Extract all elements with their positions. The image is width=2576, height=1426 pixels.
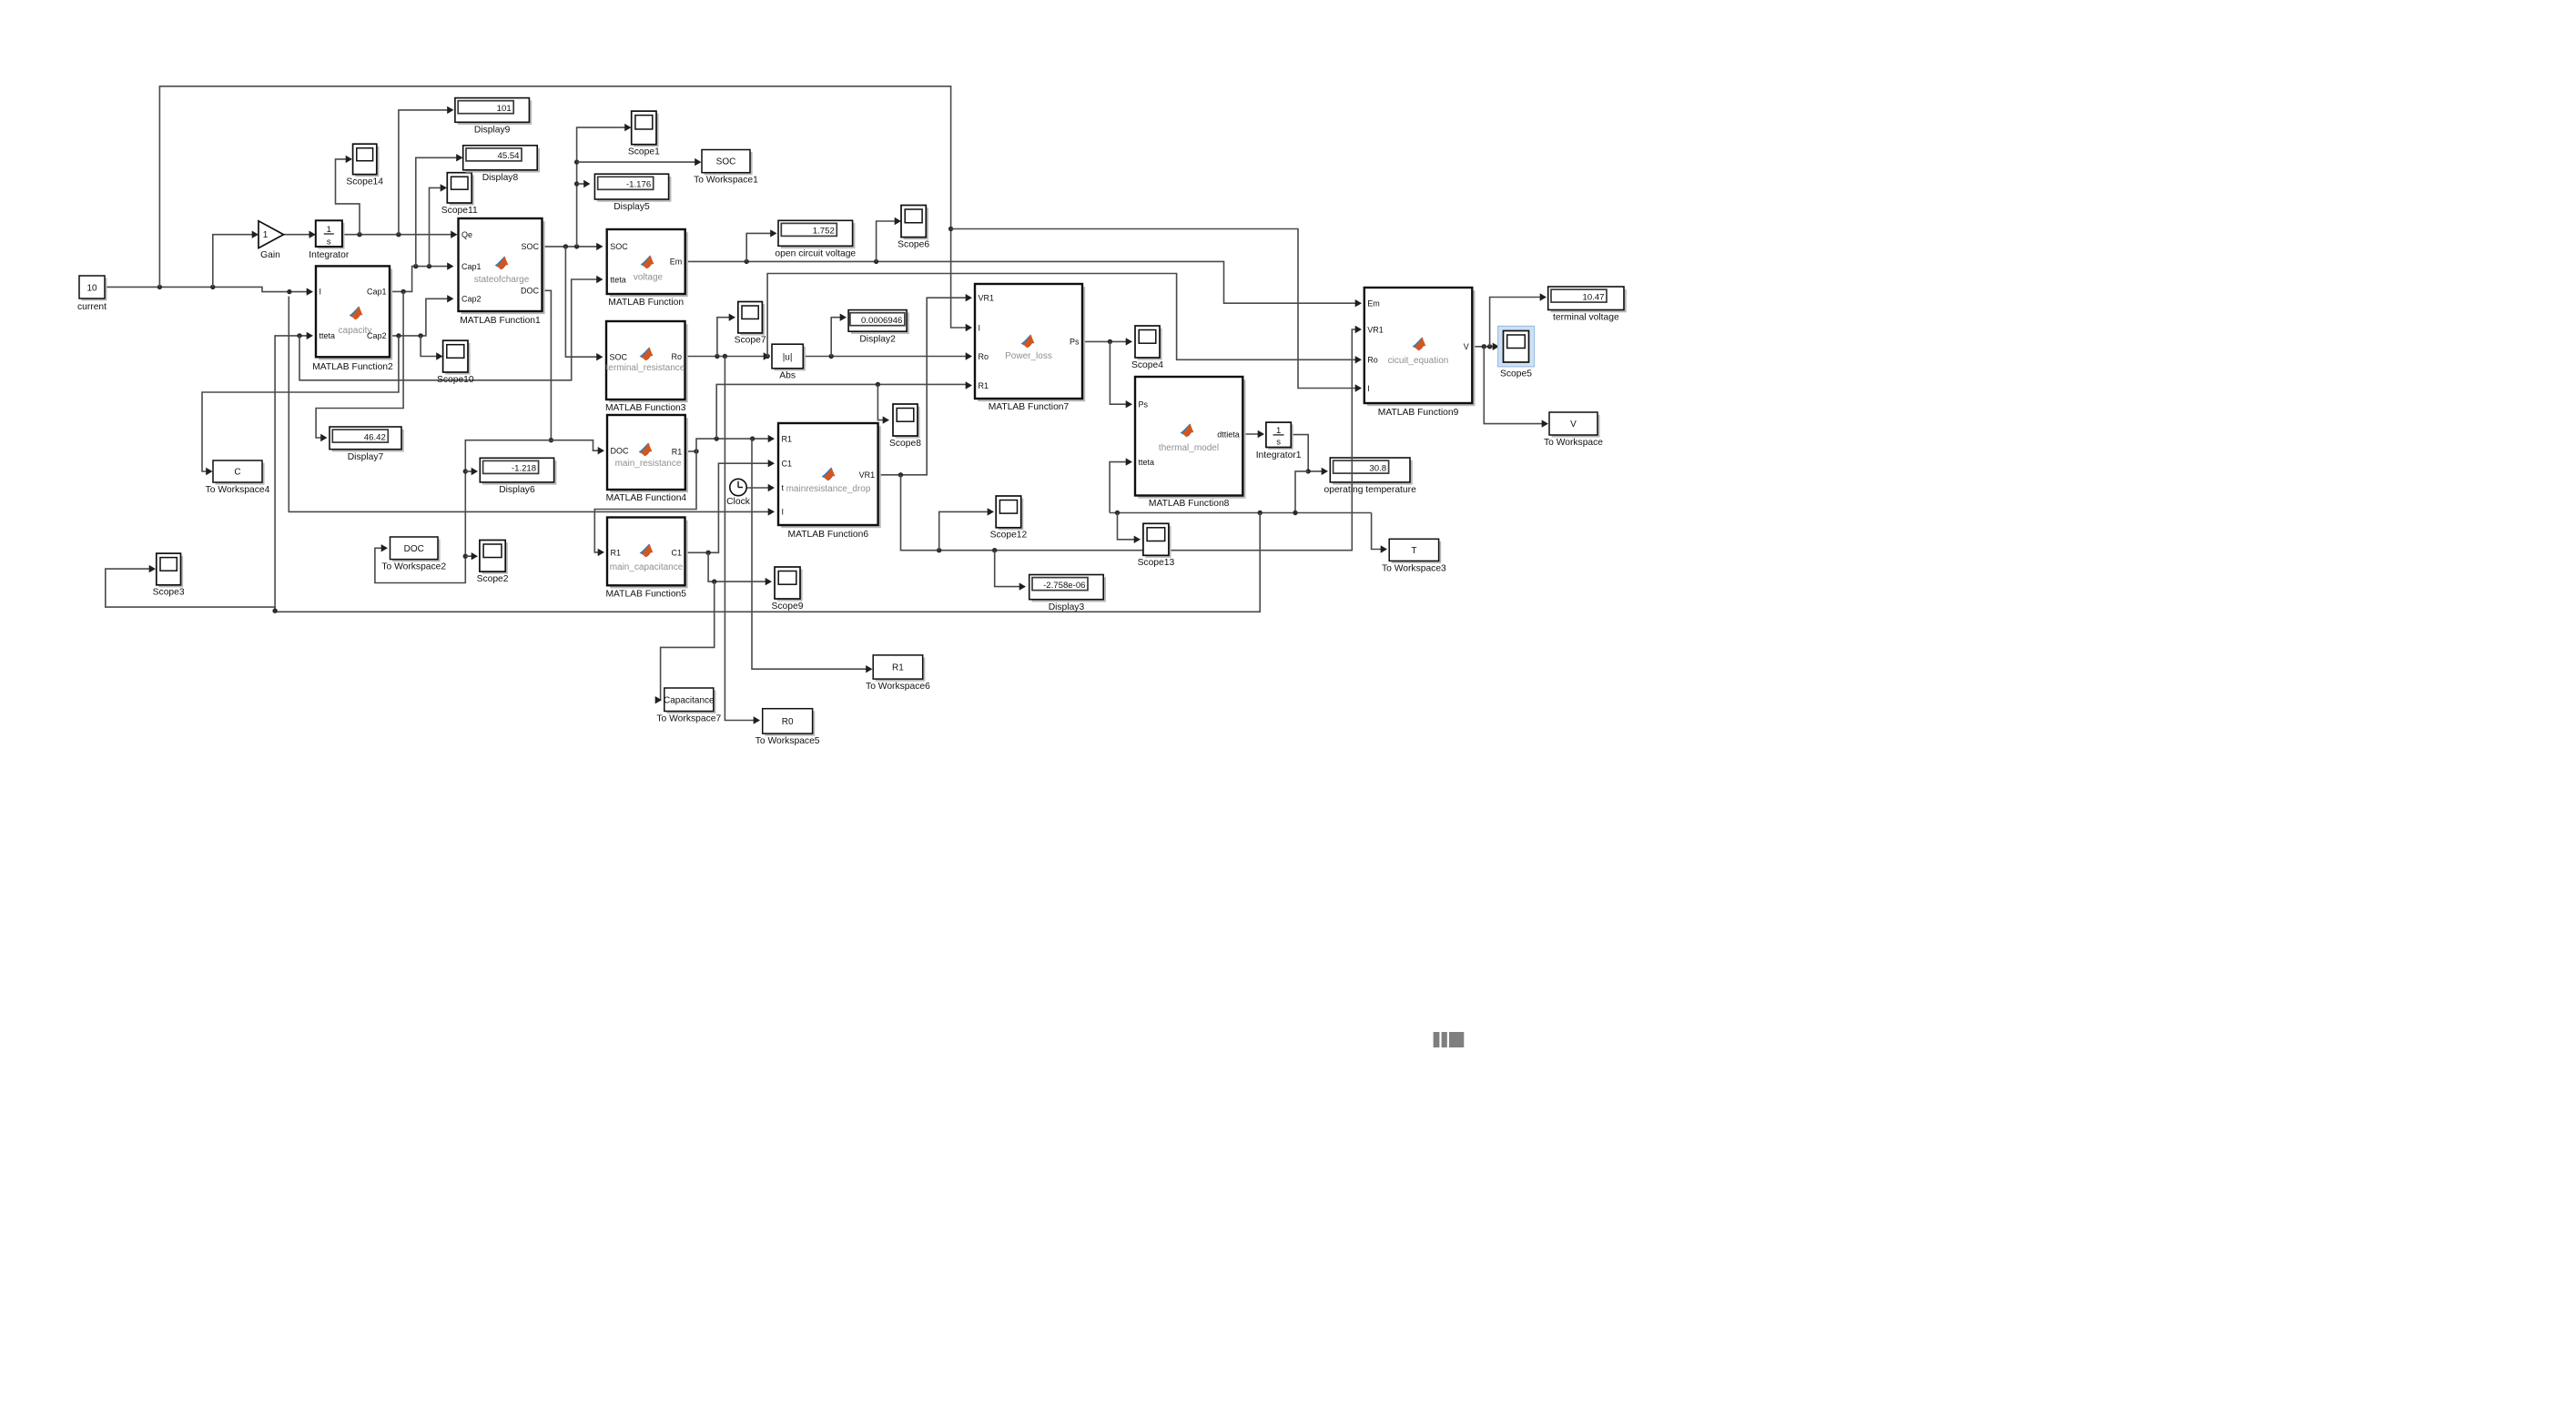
wire: trunk branch to Scope13 bbox=[1118, 513, 1138, 540]
wire: theta to trunk bbox=[1295, 471, 1308, 513]
svg-text:C: C bbox=[234, 468, 240, 478]
display Display5 value -1.176 bbox=[594, 174, 671, 212]
svg-text:-2.758e-06: -2.758e-06 bbox=[1043, 581, 1085, 591]
svg-text:T: T bbox=[1411, 546, 1416, 556]
svg-text:Power_loss: Power_loss bbox=[1005, 351, 1052, 361]
svg-text:R1: R1 bbox=[611, 549, 622, 558]
svg-text:main_capacitance: main_capacitance bbox=[610, 562, 684, 572]
block MATLAB Function3 (terminal_resistance) bbox=[605, 321, 688, 413]
wire: Power_loss Ps output bbox=[1082, 340, 1129, 342]
svg-text:R1: R1 bbox=[979, 381, 989, 390]
svg-text:Scope2: Scope2 bbox=[477, 574, 509, 584]
block MATLAB Function8 (thermal_model) bbox=[1135, 377, 1246, 509]
svg-text:current: current bbox=[77, 302, 106, 312]
wire: SOC drop to terminal_resistance SOC bbox=[565, 247, 599, 357]
svg-text:To Workspace4: To Workspace4 bbox=[206, 485, 270, 495]
display Display7 value 46.42 bbox=[330, 427, 404, 462]
svg-text:To Workspace7: To Workspace7 bbox=[656, 714, 721, 724]
display Display3 value -2.758e-06 bbox=[1029, 575, 1106, 612]
to-workspace To Workspace1 bbox=[694, 150, 758, 186]
svg-text:stateofcharge: stateofcharge bbox=[474, 275, 530, 285]
svg-text:main_resistance: main_resistance bbox=[615, 459, 682, 469]
gain block bbox=[259, 221, 284, 260]
svg-text:thermal_model: thermal_model bbox=[1159, 443, 1219, 453]
svg-text:Ro: Ro bbox=[671, 352, 682, 361]
wire: Integrator1 output to operating temperature display bbox=[1291, 435, 1324, 471]
svg-text:R1: R1 bbox=[672, 447, 683, 456]
svg-text:Scope5: Scope5 bbox=[1500, 369, 1532, 379]
svg-text:DOC: DOC bbox=[611, 447, 630, 456]
wire: Integrator output to Qe bbox=[342, 234, 453, 236]
integrator block 1/s bbox=[309, 220, 350, 260]
svg-text:Qe: Qe bbox=[461, 230, 472, 239]
to-workspace To Workspace2 bbox=[381, 537, 446, 572]
wire: thermal_model dttheta to Integrator1 bbox=[1242, 433, 1262, 435]
svg-text:To Workspace1: To Workspace1 bbox=[694, 176, 758, 186]
svg-text:R0: R0 bbox=[782, 717, 794, 727]
wire: theta return line to left side y=672 bbox=[275, 513, 1260, 612]
svg-text:open circuit voltage: open circuit voltage bbox=[775, 249, 856, 259]
block MATLAB Function5 (main_capacitance) bbox=[605, 518, 687, 600]
scope Scope9 bbox=[772, 567, 804, 612]
wire: R1 up to mainresistance_drop R1 input bbox=[696, 439, 770, 451]
svg-text:cicuit_equation: cicuit_equation bbox=[1388, 356, 1449, 366]
wire: branch to Scope6 bbox=[877, 221, 898, 261]
block MATLAB Function9 (cicuit_equation) bbox=[1364, 288, 1476, 418]
scope Scope10 bbox=[437, 340, 474, 385]
svg-text:Scope4: Scope4 bbox=[1131, 360, 1163, 370]
svg-text:MATLAB Function2: MATLAB Function2 bbox=[312, 362, 393, 372]
wire: DOC to main_resistance DOC input bbox=[551, 440, 600, 451]
svg-text:MATLAB Function8: MATLAB Function8 bbox=[1149, 499, 1230, 509]
wire: clock to t input bbox=[746, 487, 771, 489]
wire: trunk up to thermal_model tteta input bbox=[1110, 462, 1129, 513]
svg-text:Scope12: Scope12 bbox=[990, 531, 1028, 541]
svg-text:Em: Em bbox=[670, 258, 683, 267]
wire: branch to Scope12 bbox=[939, 511, 989, 550]
scope Scope14 bbox=[346, 144, 383, 187]
svg-text:1: 1 bbox=[263, 230, 269, 240]
svg-text:I: I bbox=[1367, 384, 1370, 393]
wire: theta branch to voltage tteta bbox=[299, 279, 599, 380]
wire: branch to Display2 bbox=[831, 318, 842, 357]
wire: current source output trunk y=315 bbox=[105, 287, 309, 291]
svg-text:Ps: Ps bbox=[1139, 400, 1149, 410]
wire: Cap2 branch to Scope10 bbox=[421, 336, 439, 357]
wire: Ro branch to MATLAB Function9 Ro input bbox=[767, 274, 1357, 360]
svg-text:operating temperature: operating temperature bbox=[1323, 485, 1416, 495]
wire: Cap1 branch down to Display7 bbox=[316, 291, 403, 438]
wire: MATLAB Function9 V output bbox=[1472, 346, 1496, 348]
svg-text:SOC: SOC bbox=[716, 157, 736, 167]
svg-text:MATLAB Function6: MATLAB Function6 bbox=[788, 530, 869, 540]
scope Scope7 bbox=[735, 302, 766, 346]
block MATLAB Function7 (Power_loss) bbox=[975, 284, 1085, 412]
scope Scope4 bbox=[1131, 326, 1163, 370]
svg-text:10: 10 bbox=[86, 283, 97, 293]
svg-text:s: s bbox=[1276, 438, 1281, 448]
svg-text:Display7: Display7 bbox=[348, 452, 384, 462]
svg-text:Scope1: Scope1 bbox=[628, 147, 660, 157]
wire: voltage Em output line bbox=[685, 261, 1358, 303]
wire: current branch down to mainresistance_drop I input bbox=[289, 297, 770, 512]
wire: V branch to To Workspace bbox=[1484, 347, 1545, 424]
wire: branch up to Gain input bbox=[213, 235, 255, 288]
scope Scope3 bbox=[153, 553, 185, 598]
svg-text:Scope14: Scope14 bbox=[346, 177, 383, 187]
svg-text:MATLAB Function5: MATLAB Function5 bbox=[605, 590, 686, 600]
wire: left segment to Scope3 bbox=[106, 569, 275, 611]
svg-text:V: V bbox=[1570, 420, 1577, 430]
scope Scope11 bbox=[441, 173, 478, 216]
wire: current feedback top line bbox=[159, 86, 967, 328]
display Display8 value 45.54 bbox=[463, 146, 540, 183]
wire: branch to Scope14 bbox=[336, 159, 360, 235]
svg-text:C1: C1 bbox=[782, 460, 793, 469]
wire: main_resistance R1 output junction bbox=[685, 450, 696, 452]
wire: C1 branch to Scope9 and Capacitance workspace bbox=[708, 552, 767, 582]
wire: branch to Display3 bbox=[995, 551, 1021, 587]
to-workspace To Workspace5 bbox=[756, 709, 820, 746]
wire: theta trunk y=563.5 bbox=[1110, 512, 1372, 514]
svg-text:|u|: |u| bbox=[783, 352, 793, 362]
wire: R1 riser to Power_loss R1 and Scope8 bbox=[716, 384, 967, 439]
svg-text:Clock: Clock bbox=[726, 497, 751, 507]
wire: capacity Cap2 output bbox=[390, 298, 450, 336]
to-workspace To Workspace3 bbox=[1382, 539, 1446, 573]
wire: stateofcharge DOC output trunk bbox=[543, 290, 552, 440]
wire: Ro branch down to R0 workspace bbox=[725, 357, 756, 721]
scope Scope13 bbox=[1138, 523, 1175, 568]
svg-text:terminal_resistance: terminal_resistance bbox=[606, 363, 685, 373]
svg-text:Scope6: Scope6 bbox=[898, 239, 929, 249]
constant current=10 bbox=[77, 276, 106, 312]
svg-text:MATLAB Function9: MATLAB Function9 bbox=[1378, 408, 1459, 418]
display open circuit voltage value 1.752 bbox=[775, 220, 856, 258]
svg-text:Scope9: Scope9 bbox=[772, 602, 804, 612]
svg-text:Display6: Display6 bbox=[499, 485, 535, 495]
svg-text:tteta: tteta bbox=[1139, 458, 1155, 467]
scope Scope1 bbox=[628, 111, 660, 157]
svg-text:R1: R1 bbox=[782, 434, 793, 443]
wire: branch to Display8 bbox=[416, 157, 459, 266]
wire: SOC riser to Scope1 / To Workspace1 / Display5 bbox=[577, 127, 627, 247]
svg-text:VR1: VR1 bbox=[859, 470, 876, 480]
svg-text:0.0006946: 0.0006946 bbox=[861, 316, 902, 326]
wire: feedback branch to MATLAB Function9 I input bbox=[951, 229, 1357, 389]
svg-text:mainresistance_drop: mainresistance_drop bbox=[786, 484, 871, 494]
display operating temperature value 30.8 bbox=[1323, 458, 1416, 495]
svg-text:Cap1: Cap1 bbox=[367, 288, 387, 297]
svg-text:-1.176: -1.176 bbox=[626, 180, 651, 190]
wire: VR1 riser to MATLAB Function9 VR1 input (drawn over display) bbox=[1349, 329, 1357, 551]
svg-text:To Workspace3: To Workspace3 bbox=[1382, 563, 1446, 573]
svg-text:MATLAB Function3: MATLAB Function3 bbox=[605, 403, 686, 413]
scope Scope6 bbox=[898, 206, 929, 250]
display Display2 value 0.0006946 bbox=[848, 310, 909, 345]
block MATLAB Function4 (main_resistance) bbox=[606, 415, 688, 503]
svg-text:tteta: tteta bbox=[319, 331, 336, 340]
abs block |u| bbox=[772, 344, 806, 380]
svg-text:dttieta: dttieta bbox=[1217, 430, 1240, 439]
wire: R1 down to main_capacitance R1 input bbox=[594, 451, 696, 552]
svg-text:Gain: Gain bbox=[260, 250, 280, 260]
svg-text:DOC: DOC bbox=[404, 544, 424, 554]
integrator1 block 1/s bbox=[1256, 422, 1302, 460]
svg-text:Integrator1: Integrator1 bbox=[1256, 450, 1302, 460]
svg-text:R1: R1 bbox=[892, 663, 904, 673]
wire: V branch to terminal voltage display bbox=[1490, 298, 1542, 347]
svg-text:DOC: DOC bbox=[521, 287, 540, 296]
svg-text:46.42: 46.42 bbox=[364, 432, 386, 442]
svg-text:Scope11: Scope11 bbox=[441, 206, 478, 216]
block MATLAB Function6 (mainresistance_drop) bbox=[778, 423, 881, 540]
wire: capacity tteta input from theta return bbox=[275, 336, 309, 611]
svg-text:Integrator: Integrator bbox=[309, 250, 350, 260]
wire: DOC branch to Display6 / Scope2 / To Workspace2 bbox=[375, 440, 552, 583]
wire: branch to Display9 bbox=[399, 110, 450, 235]
svg-text:Cap2: Cap2 bbox=[367, 331, 387, 340]
svg-text:45.54: 45.54 bbox=[497, 151, 520, 161]
svg-text:-1.218: -1.218 bbox=[512, 464, 536, 474]
svg-text:MATLAB Function: MATLAB Function bbox=[608, 298, 684, 308]
wire: stateofcharge SOC output to voltage SOC bbox=[543, 246, 600, 248]
svg-text:Display9: Display9 bbox=[474, 126, 511, 136]
svg-text:VR1: VR1 bbox=[1367, 325, 1384, 334]
to-workspace To Workspace7 bbox=[656, 688, 721, 724]
svg-text:To Workspace2: To Workspace2 bbox=[381, 562, 446, 572]
svg-text:1: 1 bbox=[327, 225, 331, 235]
svg-text:Scope8: Scope8 bbox=[889, 439, 921, 449]
svg-text:Display8: Display8 bbox=[482, 173, 519, 183]
svg-text:Display3: Display3 bbox=[1049, 602, 1085, 612]
wire: branch to open circuit voltage display bbox=[746, 233, 773, 261]
clock block bbox=[726, 479, 751, 507]
wire: Ps branch to thermal_model Ps input bbox=[1110, 341, 1129, 404]
scope Scope8 bbox=[889, 404, 921, 449]
block MATLAB Function2 (capacity) bbox=[312, 266, 393, 372]
svg-text:Ro: Ro bbox=[1367, 356, 1378, 365]
svg-text:30.8: 30.8 bbox=[1369, 463, 1386, 473]
block MATLAB Function1 (stateofcharge) bbox=[459, 218, 545, 326]
svg-text:I: I bbox=[979, 323, 981, 332]
scope Scope2 bbox=[477, 541, 509, 584]
scope Scope5 selected bbox=[1498, 326, 1535, 379]
to-workspace To Workspace6 bbox=[866, 655, 930, 692]
display Display9 value 101 bbox=[455, 98, 532, 136]
wire: R1 branch down to To Workspace6 bbox=[752, 439, 868, 669]
svg-text:voltage: voltage bbox=[634, 273, 664, 283]
svg-text:I: I bbox=[319, 288, 322, 297]
wire: terminal_resistance Ro output to Abs bbox=[685, 356, 768, 358]
svg-text:1: 1 bbox=[1276, 426, 1281, 436]
svg-text:101: 101 bbox=[497, 104, 512, 114]
display Display6 value -1.218 bbox=[480, 458, 556, 495]
svg-text:To Workspace6: To Workspace6 bbox=[866, 682, 930, 692]
to-workspace To Workspace4 bbox=[206, 460, 270, 495]
svg-text:Display5: Display5 bbox=[614, 202, 650, 212]
svg-text:Scope7: Scope7 bbox=[735, 336, 766, 346]
block MATLAB Function (voltage) bbox=[607, 229, 688, 308]
svg-text:Display2: Display2 bbox=[859, 334, 896, 344]
svg-text:MATLAB Function7: MATLAB Function7 bbox=[989, 402, 1070, 412]
svg-text:SOC: SOC bbox=[610, 242, 628, 251]
wire: Cap2 branch down to C workspace bbox=[202, 336, 399, 471]
svg-text:SOC: SOC bbox=[521, 242, 539, 251]
svg-text:10.47: 10.47 bbox=[1582, 292, 1604, 302]
wire: trunk branch down to T workspace bbox=[1372, 513, 1383, 550]
wire: Gain to Integrator bbox=[284, 234, 312, 236]
svg-text:terminal voltage: terminal voltage bbox=[1553, 313, 1619, 323]
wire: Ro branch to Scope7 bbox=[717, 318, 731, 357]
svg-text:VR1: VR1 bbox=[979, 294, 995, 303]
svg-text:Abs: Abs bbox=[779, 371, 796, 381]
scope Scope12 bbox=[990, 496, 1028, 541]
svg-text:I: I bbox=[782, 508, 785, 517]
svg-text:Ro: Ro bbox=[979, 352, 989, 361]
to-workspace To Workspace bbox=[1544, 412, 1603, 448]
svg-text:Cap2: Cap2 bbox=[461, 295, 482, 304]
svg-text:Cap1: Cap1 bbox=[461, 262, 482, 271]
svg-text:Scope10: Scope10 bbox=[437, 375, 474, 385]
status widget gray bars bbox=[1434, 1032, 1465, 1047]
wire: main_capacitance C1 output bbox=[685, 463, 771, 552]
svg-text:Ps: Ps bbox=[1070, 338, 1080, 347]
svg-text:Scope3: Scope3 bbox=[153, 588, 185, 598]
svg-text:MATLAB Function1: MATLAB Function1 bbox=[460, 316, 541, 326]
svg-text:Scope13: Scope13 bbox=[1138, 558, 1175, 568]
svg-text:Capacitance: Capacitance bbox=[664, 695, 715, 705]
wire: mainresistance_drop VR1 output bbox=[878, 298, 967, 475]
svg-text:SOC: SOC bbox=[610, 353, 628, 362]
svg-text:C1: C1 bbox=[671, 549, 682, 558]
wire: capacity Cap1 output to stateofcharge Cap1 bbox=[390, 267, 450, 292]
svg-text:V: V bbox=[1464, 342, 1469, 351]
display terminal voltage value 10.47 bbox=[1548, 287, 1627, 323]
svg-text:1.752: 1.752 bbox=[813, 227, 835, 237]
wire: Abs output to Power_loss Ro bbox=[803, 356, 967, 358]
svg-text:tteta: tteta bbox=[610, 275, 626, 284]
svg-text:s: s bbox=[327, 237, 331, 247]
svg-text:To Workspace5: To Workspace5 bbox=[756, 736, 820, 746]
svg-text:Em: Em bbox=[1367, 299, 1380, 308]
wire: branch to Scope11 bbox=[430, 187, 443, 266]
svg-text:MATLAB Function4: MATLAB Function4 bbox=[606, 493, 687, 503]
svg-text:To Workspace: To Workspace bbox=[1544, 438, 1603, 448]
wire: VR1 down along y=605 bbox=[901, 475, 1350, 551]
